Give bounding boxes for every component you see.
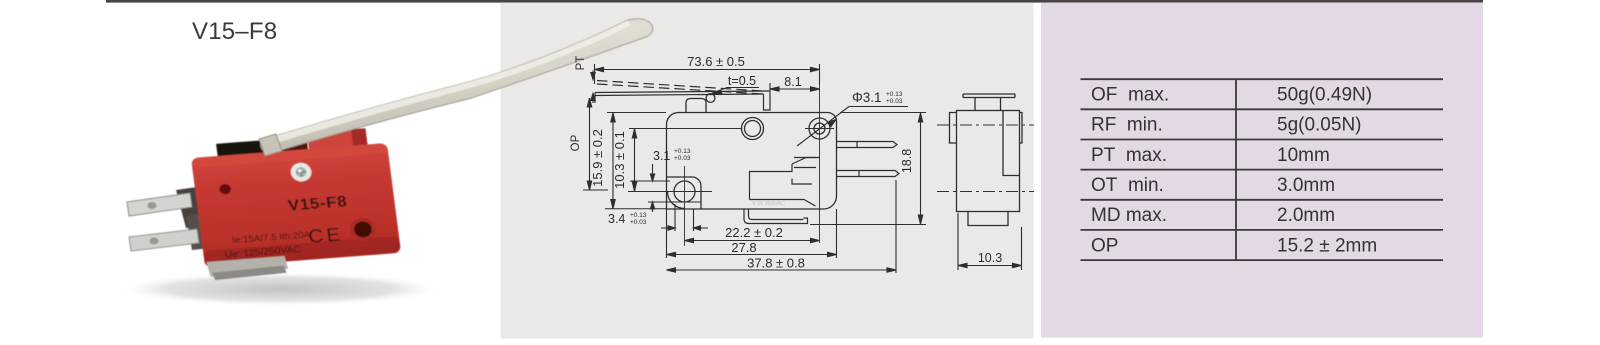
end view cap bbox=[963, 94, 1015, 98]
svg-text:OP: OP bbox=[1091, 235, 1118, 256]
svg-text:Φ3.1: Φ3.1 bbox=[852, 90, 882, 105]
svg-text:18.8: 18.8 bbox=[900, 149, 914, 173]
plunger black bar bbox=[216, 140, 269, 159]
right hole boss bbox=[349, 217, 378, 242]
centreline lower bbox=[937, 191, 1034, 193]
lever hinge fold bbox=[259, 134, 282, 156]
svg-text:15.9 ± 0.2: 15.9 ± 0.2 bbox=[590, 129, 605, 187]
dim 15.9 line bbox=[605, 113, 667, 209]
dim OP line bbox=[589, 98, 591, 190]
svg-text:MD max.: MD max. bbox=[1091, 205, 1167, 226]
upper terminal bbox=[837, 142, 898, 148]
bottom bracket bbox=[206, 256, 288, 277]
svg-text:CE: CE bbox=[307, 224, 344, 247]
dim 10.3 end view line bbox=[958, 213, 1022, 270]
end view pedestal bbox=[968, 212, 1008, 226]
terminal tab upper bbox=[127, 193, 192, 216]
dim 8.1 line bbox=[769, 83, 771, 91]
dim 22.2 line bbox=[685, 240, 820, 242]
svg-text:PT: PT bbox=[575, 56, 587, 71]
dim PT arrows bbox=[592, 71, 594, 104]
svg-text:+0.03: +0.03 bbox=[630, 219, 647, 226]
end view left notch bbox=[950, 113, 957, 144]
svg-text:73.6 ± 0.5: 73.6 ± 0.5 bbox=[687, 54, 745, 69]
hole centrelines bbox=[805, 83, 834, 243]
red case bbox=[191, 143, 401, 268]
top rule line bbox=[106, 0, 1483, 3]
bottom-left hole bbox=[674, 181, 695, 202]
dim phi3.1 leader bbox=[797, 107, 908, 147]
svg-text:+0.13: +0.13 bbox=[886, 91, 903, 98]
row lines bbox=[1081, 78, 1444, 80]
dim 18.8 line bbox=[810, 113, 926, 225]
red button block bbox=[307, 128, 368, 150]
pivot circle bbox=[706, 94, 715, 103]
dim 3.1 arrows bbox=[630, 181, 701, 202]
mounting boss bottom-left bbox=[667, 177, 702, 209]
dim t=0.5 leader bbox=[714, 88, 759, 93]
grey drawing card bbox=[501, 3, 1034, 339]
svg-text:3.1: 3.1 bbox=[653, 149, 670, 163]
top-centre hole bbox=[742, 118, 764, 140]
dashed lever free position bbox=[597, 81, 763, 92]
svg-text:15.2 ± 2mm: 15.2 ± 2mm bbox=[1277, 235, 1377, 256]
switch body bbox=[189, 127, 403, 281]
svg-text:V-15 250VAC: V-15 250VAC bbox=[752, 201, 785, 207]
lever hook end bbox=[764, 91, 771, 110]
dim 37.8 line bbox=[895, 180, 897, 273]
svg-text:3.0mm: 3.0mm bbox=[1277, 175, 1335, 196]
svg-text:8.1: 8.1 bbox=[784, 75, 801, 89]
centreline upper bbox=[937, 124, 1034, 126]
terminal middle dark bbox=[176, 186, 206, 228]
svg-text:V15–F8: V15–F8 bbox=[192, 18, 277, 45]
svg-text:10.3 ± 0.1: 10.3 ± 0.1 bbox=[612, 131, 627, 189]
svg-text:37.8 ± 0.8: 37.8 ± 0.8 bbox=[747, 256, 805, 271]
end view internal step bbox=[1003, 111, 1020, 176]
svg-text:3.4: 3.4 bbox=[608, 212, 625, 226]
end view stem bbox=[975, 98, 1001, 111]
svg-text:RF min.: RF min. bbox=[1091, 115, 1163, 136]
svg-text:2.0mm: 2.0mm bbox=[1277, 205, 1335, 226]
body outline bbox=[667, 113, 837, 210]
lever arm bbox=[261, 19, 653, 153]
plunger bbox=[686, 99, 706, 113]
end view body bbox=[957, 111, 1020, 212]
svg-text:PT max.: PT max. bbox=[1091, 145, 1167, 166]
svg-text:27.8: 27.8 bbox=[731, 240, 756, 255]
svg-text:OT min.: OT min. bbox=[1091, 175, 1164, 196]
svg-text:+0.03: +0.03 bbox=[674, 155, 691, 162]
svg-text:+0.13: +0.13 bbox=[674, 148, 691, 155]
svg-text:10mm: 10mm bbox=[1277, 145, 1330, 166]
column divider bbox=[1235, 79, 1237, 260]
dim 73.6 line bbox=[595, 64, 820, 84]
dim 3.4 arrows bbox=[661, 204, 708, 231]
rivet bbox=[290, 162, 313, 182]
button slot bbox=[284, 138, 308, 152]
svg-text:10.3: 10.3 bbox=[978, 251, 1002, 265]
svg-text:t=0.5: t=0.5 bbox=[728, 74, 756, 88]
end view right notch bbox=[1020, 113, 1023, 144]
common terminal bottom bbox=[744, 209, 808, 224]
svg-text:+0.13: +0.13 bbox=[630, 212, 647, 219]
svg-text:22.2 ± 0.2: 22.2 ± 0.2 bbox=[725, 225, 783, 240]
top-right hole bbox=[809, 118, 830, 139]
svg-text:5g(0.05N): 5g(0.05N) bbox=[1277, 115, 1362, 136]
dim 27.8 line bbox=[667, 209, 837, 258]
dim 10.3 line bbox=[629, 128, 742, 130]
fillet arc around hole bbox=[668, 192, 685, 209]
svg-text:50g(0.49N): 50g(0.49N) bbox=[1277, 85, 1372, 106]
left small hole bbox=[219, 184, 232, 195]
lower terminal bbox=[837, 171, 900, 177]
solid lever bbox=[595, 91, 770, 93]
shadow under switch bbox=[115, 272, 445, 306]
terminal tab lower bbox=[129, 229, 199, 251]
internal mechanism bbox=[750, 164, 793, 200]
svg-text:+0.03: +0.03 bbox=[886, 98, 903, 105]
svg-text:OP: OP bbox=[570, 134, 582, 151]
svg-text:OF max.: OF max. bbox=[1091, 85, 1169, 106]
pink table card bbox=[1041, 3, 1483, 338]
contact spring bbox=[750, 200, 816, 207]
